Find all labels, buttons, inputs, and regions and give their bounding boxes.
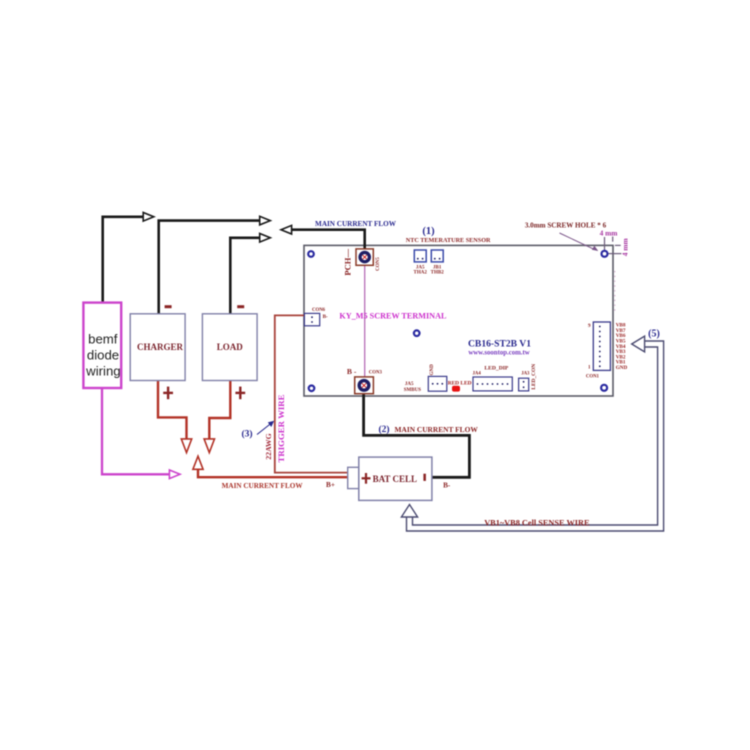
svg-text:LOAD: LOAD [217, 342, 244, 352]
svg-text:BAT CELL: BAT CELL [373, 474, 417, 484]
svg-text:(2): (2) [378, 424, 389, 435]
svg-text:bemf: bemf [88, 332, 118, 347]
svg-text:RED LED: RED LED [448, 381, 472, 387]
svg-text:THA2: THA2 [414, 271, 428, 276]
svg-text:B-: B- [323, 314, 328, 320]
svg-text:JA3: JA3 [521, 372, 530, 377]
svg-text:THB2: THB2 [431, 271, 445, 276]
svg-text:CHARGER: CHARGER [137, 342, 184, 352]
svg-text:4 mm: 4 mm [600, 229, 619, 238]
svg-text:JA4: JA4 [473, 372, 482, 377]
svg-text:4 mm: 4 mm [621, 238, 630, 257]
svg-text:PCH—: PCH— [343, 249, 353, 276]
svg-text:wiring: wiring [85, 364, 120, 379]
svg-text:VB1~VB8 Cell SENSE WIRE: VB1~VB8 Cell SENSE WIRE [484, 519, 590, 528]
svg-text:LED_CON: LED_CON [531, 364, 537, 390]
svg-text:B -: B - [347, 367, 357, 376]
svg-text:GND: GND [616, 365, 628, 371]
svg-text:JA5: JA5 [405, 382, 414, 387]
svg-text:KY_M5 SCREW TERMINAL: KY_M5 SCREW TERMINAL [339, 311, 447, 320]
svg-text:GND: GND [430, 364, 435, 376]
svg-text:CON6: CON6 [312, 308, 326, 313]
svg-text:22AWG: 22AWG [264, 433, 273, 459]
svg-text:(5): (5) [648, 329, 660, 340]
svg-text:B-: B- [443, 482, 451, 490]
svg-text:3.0mm SCREW HOLE * 6: 3.0mm SCREW HOLE * 6 [525, 222, 607, 230]
svg-text:diode: diode [87, 348, 119, 363]
svg-text:CON3: CON3 [369, 371, 383, 376]
svg-text:B+: B+ [326, 481, 335, 489]
svg-text:CON5: CON5 [376, 257, 381, 271]
svg-text:CON1: CON1 [586, 374, 600, 379]
svg-text:MAIN CURRENT FLOW: MAIN CURRENT FLOW [315, 220, 397, 228]
svg-text:CB16-ST2B V1: CB16-ST2B V1 [468, 338, 531, 349]
svg-text:TRIGGER WIRE: TRIGGER WIRE [276, 394, 286, 462]
svg-text:www.soontop.com.tw: www.soontop.com.tw [468, 349, 529, 356]
svg-text:SMBUS: SMBUS [404, 388, 421, 393]
svg-text:(1): (1) [422, 226, 435, 237]
svg-text:(3): (3) [241, 429, 252, 440]
svg-text:NTC TEMERATURE SENSOR: NTC TEMERATURE SENSOR [406, 237, 491, 244]
svg-text:LED_DIP: LED_DIP [484, 365, 509, 371]
svg-text:MAIN CURRENT FLOW: MAIN CURRENT FLOW [395, 425, 479, 434]
svg-text:MAIN CURRENT FLOW: MAIN CURRENT FLOW [222, 482, 304, 490]
